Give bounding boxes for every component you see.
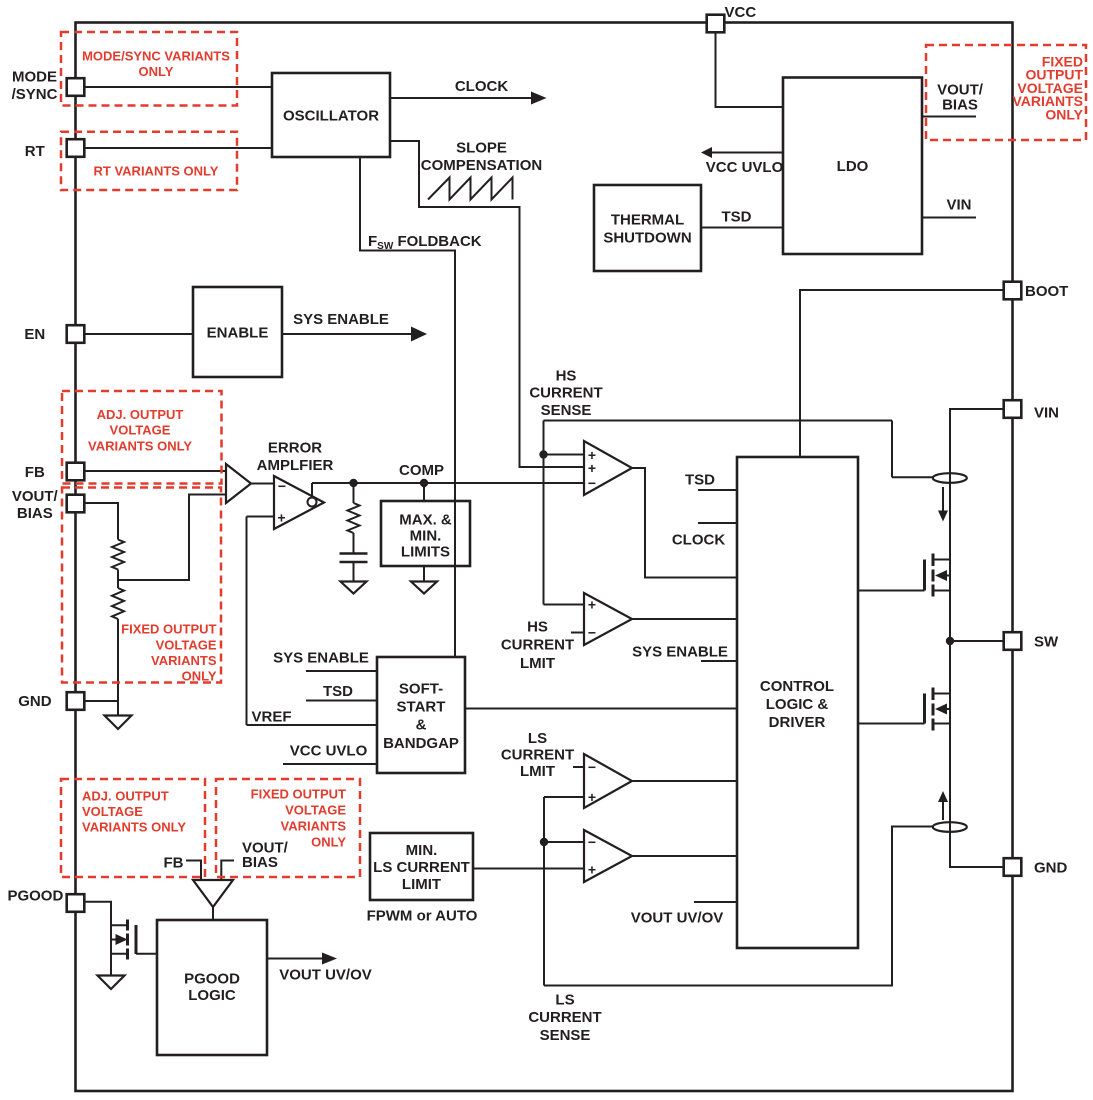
- svg-text:MODE: MODE: [12, 69, 57, 86]
- svg-text:VOUT UV/OV: VOUT UV/OV: [631, 909, 724, 926]
- svg-text:−: −: [588, 759, 596, 775]
- svg-text:SLOPE: SLOPE: [456, 139, 507, 156]
- svg-text:VOUT UV/OV: VOUT UV/OV: [279, 966, 372, 983]
- svg-text:ENABLE: ENABLE: [207, 324, 269, 341]
- svg-text:CURRENT: CURRENT: [528, 1009, 601, 1026]
- svg-text:VIN: VIN: [1034, 404, 1059, 421]
- svg-text:SENSE: SENSE: [541, 402, 592, 419]
- svg-text:ONLY: ONLY: [311, 835, 346, 850]
- svg-text:SENSE: SENSE: [540, 1027, 591, 1044]
- svg-text:LS: LS: [555, 991, 574, 1008]
- svg-text:LOGIC: LOGIC: [188, 987, 236, 1004]
- svg-text:THERMAL: THERMAL: [611, 211, 684, 228]
- svg-text:ADJ. OUTPUT: ADJ. OUTPUT: [97, 407, 184, 422]
- svg-text:BIAS: BIAS: [17, 505, 53, 522]
- svg-text:MAX. &: MAX. &: [399, 511, 452, 528]
- svg-text:HS: HS: [556, 367, 577, 384]
- svg-text:+: +: [588, 597, 596, 613]
- svg-text:&: &: [416, 717, 427, 734]
- svg-text:VOLTAGE: VOLTAGE: [285, 803, 346, 818]
- svg-text:+: +: [588, 862, 596, 878]
- svg-text:LS: LS: [528, 730, 547, 747]
- svg-text:EN: EN: [24, 326, 45, 343]
- svg-text:SW: SW: [1034, 633, 1059, 650]
- svg-text:SHUTDOWN: SHUTDOWN: [603, 229, 691, 246]
- svg-text:VARIANTS ONLY: VARIANTS ONLY: [82, 820, 186, 835]
- svg-text:LIMITS: LIMITS: [401, 543, 450, 560]
- svg-text:VREF: VREF: [251, 708, 291, 725]
- svg-text:OSCILLATOR: OSCILLATOR: [283, 107, 379, 124]
- svg-text:VARIANTS: VARIANTS: [281, 819, 347, 834]
- svg-text:GND: GND: [1034, 859, 1068, 876]
- svg-text:LMIT: LMIT: [520, 655, 555, 672]
- svg-text:−: −: [588, 625, 596, 641]
- svg-text:CONTROL: CONTROL: [760, 678, 834, 695]
- svg-text:MODE/SYNC VARIANTS: MODE/SYNC VARIANTS: [82, 49, 230, 64]
- svg-text:LOGIC &: LOGIC &: [766, 696, 829, 713]
- svg-text:VCC UVLO: VCC UVLO: [706, 159, 784, 176]
- svg-text:START: START: [397, 699, 446, 716]
- svg-text:VARIANTS: VARIANTS: [151, 653, 217, 668]
- svg-text:AMPLFIER: AMPLFIER: [257, 457, 334, 474]
- svg-text:ADJ. OUTPUT: ADJ. OUTPUT: [82, 789, 169, 804]
- svg-text:PGOOD: PGOOD: [7, 888, 63, 905]
- svg-text:VCC: VCC: [725, 4, 757, 21]
- svg-text:CURRENT: CURRENT: [501, 746, 574, 763]
- svg-text:VCC UVLO: VCC UVLO: [290, 742, 368, 759]
- svg-text:TSD: TSD: [685, 471, 715, 488]
- svg-text:COMPENSATION: COMPENSATION: [421, 157, 542, 174]
- svg-text:VOLTAGE: VOLTAGE: [82, 804, 143, 819]
- svg-text:FPWM or AUTO: FPWM or AUTO: [367, 907, 478, 924]
- svg-text:LS CURRENT: LS CURRENT: [373, 859, 470, 876]
- svg-text:TSD: TSD: [722, 208, 752, 225]
- svg-text:/SYNC: /SYNC: [12, 86, 58, 103]
- svg-text:RT: RT: [25, 143, 45, 160]
- svg-text:+: +: [588, 789, 596, 805]
- svg-text:LMIT: LMIT: [520, 763, 555, 780]
- svg-text:SYS ENABLE: SYS ENABLE: [273, 649, 369, 666]
- svg-text:SYS ENABLE: SYS ENABLE: [293, 311, 389, 328]
- svg-text:−: −: [588, 475, 596, 491]
- svg-text:VOLTAGE: VOLTAGE: [110, 423, 171, 438]
- svg-text:CURRENT: CURRENT: [501, 637, 574, 654]
- svg-text:BOOT: BOOT: [1025, 283, 1068, 300]
- svg-text:ONLY: ONLY: [182, 669, 217, 684]
- svg-text:HS: HS: [527, 618, 548, 635]
- svg-text:VOLTAGE: VOLTAGE: [156, 637, 217, 652]
- svg-text:MIN.: MIN.: [410, 527, 442, 544]
- svg-text:FB: FB: [25, 464, 45, 481]
- svg-text:VARIANTS ONLY: VARIANTS ONLY: [88, 438, 192, 453]
- svg-text:LIMIT: LIMIT: [402, 876, 441, 893]
- svg-text:+: +: [588, 460, 596, 476]
- svg-text:VOUT/: VOUT/: [12, 488, 59, 505]
- svg-text:TSD: TSD: [323, 683, 353, 700]
- svg-text:CURRENT: CURRENT: [529, 385, 602, 402]
- svg-text:GND: GND: [18, 693, 52, 710]
- svg-text:BANDGAP: BANDGAP: [383, 735, 459, 752]
- svg-text:ERROR: ERROR: [268, 439, 322, 456]
- svg-text:BIAS: BIAS: [242, 854, 278, 871]
- svg-text:ONLY: ONLY: [139, 64, 174, 79]
- svg-text:−: −: [588, 834, 596, 850]
- svg-text:COMP: COMP: [399, 462, 444, 479]
- svg-text:FIXED OUTPUT: FIXED OUTPUT: [121, 622, 216, 637]
- svg-text:CLOCK: CLOCK: [455, 78, 508, 95]
- svg-text:FB: FB: [164, 854, 184, 871]
- svg-text:FIXED OUTPUT: FIXED OUTPUT: [251, 787, 346, 802]
- svg-text:VIN: VIN: [946, 196, 971, 213]
- svg-text:PGOOD: PGOOD: [184, 970, 240, 987]
- svg-text:−: −: [278, 478, 286, 494]
- svg-text:SYS ENABLE: SYS ENABLE: [632, 643, 728, 660]
- svg-text:MIN.: MIN.: [406, 842, 438, 859]
- svg-text:LDO: LDO: [837, 158, 869, 175]
- svg-text:CLOCK: CLOCK: [672, 531, 725, 548]
- svg-text:RT VARIANTS ONLY: RT VARIANTS ONLY: [94, 164, 219, 179]
- svg-text:ONLY: ONLY: [1045, 106, 1083, 122]
- svg-text:DRIVER: DRIVER: [769, 714, 826, 731]
- svg-text:BIAS: BIAS: [942, 96, 978, 113]
- svg-text:SOFT-: SOFT-: [399, 680, 443, 697]
- svg-text:+: +: [277, 510, 285, 526]
